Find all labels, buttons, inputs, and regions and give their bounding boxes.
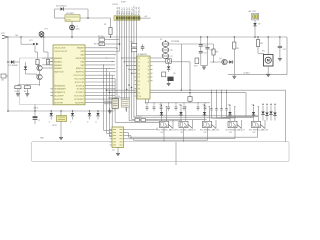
svg-text:OSC2/CLKOUT: OSC2/CLKOUT [54, 51, 68, 53]
svg-text:RB5: RB5 [81, 65, 85, 67]
svg-text:+5 (AC): +5 (AC) [243, 72, 250, 75]
svg-text:D9: D9 [258, 24, 260, 26]
svg-text:RA4/T0CKI: RA4/T0CKI [54, 71, 64, 74]
svg-text:CON1: CON1 [112, 4, 119, 6]
svg-text:T0: T0 [138, 58, 140, 60]
svg-text:TH1: TH1 [15, 35, 18, 37]
svg-text:RB2: RB2 [81, 55, 85, 57]
svg-text:12V: 12V [1, 33, 5, 35]
svg-text:AC VOLT: AC VOLT [249, 10, 258, 13]
svg-text:R9: R9 [237, 48, 239, 50]
svg-text:RB6/PGC: RB6/PGC [76, 68, 85, 70]
svg-text:C15: C15 [283, 49, 286, 51]
svg-text:OP1: OP1 [29, 40, 33, 42]
svg-text:T10: T10 [138, 96, 141, 98]
svg-text:M: M [267, 59, 270, 63]
svg-text:RL3 TEXTELL-KBE-12V: RL3 TEXTELL-KBE-12V [200, 129, 220, 131]
svg-text:RL4 TEXTELL-KBE-12V: RL4 TEXTELL-KBE-12V [226, 129, 246, 131]
svg-text:RC6/TX/CK: RC6/TX/CK [74, 96, 85, 98]
svg-text:D2 1N4007: D2 1N4007 [56, 6, 67, 8]
svg-text:T1: T1 [138, 62, 140, 64]
svg-text:X1: X1 [118, 96, 120, 98]
svg-text:R1: R1 [104, 24, 106, 26]
svg-text:U4: U4 [112, 150, 114, 152]
svg-text:RD7/PSP7: RD7/PSP7 [54, 102, 63, 104]
svg-text:RE1/AN6/WR: RE1/AN6/WR [54, 88, 66, 91]
svg-text:R6: R6 [131, 42, 133, 44]
svg-text:RL1 TEXTELL-KBE-12V: RL1 TEXTELL-KBE-12V [157, 129, 177, 131]
svg-text:RA2/AN2: RA2/AN2 [54, 64, 62, 67]
svg-text:OPTO: OPTO [52, 125, 58, 127]
svg-text:Q3: Q3 [173, 73, 175, 75]
svg-text:RA0/AN0: RA0/AN0 [54, 57, 62, 60]
svg-text:T2: T2 [138, 66, 140, 68]
svg-text:R7: R7 [171, 56, 173, 58]
svg-text:+88.8: +88.8 [33, 108, 38, 110]
svg-text:RB4: RB4 [81, 61, 85, 63]
svg-text:CRYSTAL: CRYSTAL [171, 40, 180, 43]
svg-text:PGD+12: PGD+12 [139, 6, 141, 15]
svg-text:R3 1k: R3 1k [15, 91, 20, 93]
svg-text:RC0/T1OSO: RC0/T1OSO [73, 75, 84, 77]
svg-text:RT1: RT1 [45, 29, 48, 31]
svg-text:RA3/AN3: RA3/AN3 [54, 67, 62, 70]
svg-text:T3: T3 [138, 70, 140, 72]
svg-text:RC2/CCP1: RC2/CCP1 [75, 82, 84, 84]
svg-text:T9: T9 [138, 92, 140, 94]
svg-text:R12: R12 [260, 43, 263, 45]
svg-text:C14: C14 [203, 53, 206, 55]
svg-text:T7: T7 [138, 85, 140, 87]
svg-text:RC7/RX/DT: RC7/RX/DT [74, 99, 85, 101]
svg-text:T6: T6 [138, 81, 140, 83]
svg-text:T5: T5 [138, 77, 140, 79]
svg-text:RA1/AN1: RA1/AN1 [54, 60, 62, 63]
svg-text:T8: T8 [138, 89, 140, 91]
svg-text:R10 R11: R10 R11 [135, 117, 142, 119]
svg-text:RD6/PSP6: RD6/PSP6 [54, 99, 63, 101]
svg-text:RC3/SCK: RC3/SCK [76, 85, 85, 87]
svg-text:RX TX CLK: RX TX CLK [94, 44, 104, 46]
svg-text:R5: R5 [171, 50, 173, 52]
svg-text:ICSP: ICSP [121, 2, 126, 4]
svg-text:C7: C7 [38, 120, 40, 122]
svg-text:RC5/SDO: RC5/SDO [76, 92, 85, 94]
svg-text:R2 10k: R2 10k [98, 36, 104, 38]
svg-text:RE0/AN5/RD: RE0/AN5/RD [54, 84, 66, 87]
svg-text:LS1: LS1 [1, 80, 4, 82]
svg-text:RL5 TEXTELL-KBE-12V: RL5 TEXTELL-KBE-12V [249, 129, 269, 131]
svg-text:RE2/AN7/CS: RE2/AN7/CS [54, 91, 66, 94]
svg-text:U3 7805: U3 7805 [66, 13, 75, 15]
svg-text:U2 MAX232: U2 MAX232 [137, 53, 147, 56]
svg-text:X2: X2 [160, 39, 162, 41]
svg-text:RB7/PGD: RB7/PGD [76, 72, 85, 74]
svg-text:Q4: Q4 [219, 58, 222, 60]
svg-text:MCLR/VPP: MCLR/VPP [54, 96, 64, 98]
svg-text:D1 1N4007: D1 1N4007 [9, 65, 19, 67]
svg-text:RC4/SDI: RC4/SDI [77, 89, 85, 91]
svg-text:C13: C13 [210, 50, 213, 52]
svg-text:R4 1k: R4 1k [24, 91, 29, 93]
svg-text:470u: 470u [76, 29, 80, 31]
svg-text:VI VO: VI VO [66, 19, 71, 21]
svg-text:RV1: RV1 [194, 66, 197, 68]
svg-text:RB3/PGM: RB3/PGM [76, 58, 85, 60]
svg-text:RC1/T1OSI: RC1/T1OSI [74, 78, 84, 80]
svg-text:RB0/INT: RB0/INT [77, 48, 85, 50]
svg-text:M1: M1 [262, 51, 265, 53]
svg-text:OSC1/CLKIN: OSC1/CLKIN [54, 48, 66, 50]
svg-text:R8: R8 [216, 52, 218, 54]
svg-text:RL2 TEXTELL-KBE-12V: RL2 TEXTELL-KBE-12V [177, 129, 197, 131]
svg-text:RB1: RB1 [81, 51, 85, 53]
svg-text:RD0/PSP0: RD0/PSP0 [75, 102, 84, 104]
svg-text:T4: T4 [138, 73, 140, 75]
